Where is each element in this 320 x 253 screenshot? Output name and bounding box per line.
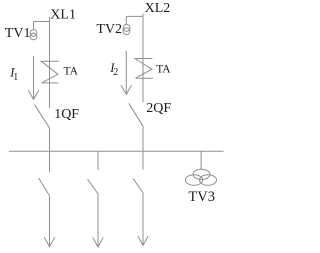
svg-text:TV3: TV3 — [188, 189, 215, 205]
wire: outgoing feeder 1 with arrow — [44, 195, 55, 246]
current arrow I1 — [28, 56, 39, 99]
wire: outgoing feeder 3 with arrow — [138, 193, 149, 245]
wire: TV3 tap stub — [200, 151, 202, 169]
label TV2 — [96, 22, 122, 37]
svg-text:TV1: TV1 — [5, 26, 31, 41]
svg-text:2: 2 — [113, 67, 118, 78]
wire: feeder 1 lower section through busbar — [49, 129, 51, 172]
svg-text:1: 1 — [13, 72, 18, 83]
label I1 — [9, 66, 18, 84]
current arrow I2 — [121, 51, 132, 95]
circuit breaker 1QF blade — [35, 105, 50, 129]
label TV1 — [5, 26, 31, 41]
svg-text:XL2: XL2 — [145, 1, 171, 16]
voltage transformer TV1 — [30, 30, 37, 40]
current transformer TA (feeder 1) — [41, 61, 59, 83]
label XL2 — [145, 1, 171, 16]
wire: incoming feeder line 1 (XL1) upper section — [49, 17, 51, 108]
svg-text:TA: TA — [156, 63, 171, 75]
wire: outgoing feeder 2 with arrow — [93, 194, 103, 247]
switch blade outgoing feeder 1 — [39, 178, 50, 195]
svg-text:2QF: 2QF — [146, 101, 171, 116]
switch blade outgoing feeder 2 — [88, 179, 99, 194]
label 1QF — [54, 107, 79, 122]
svg-text:TV2: TV2 — [96, 22, 122, 37]
wire: TV1 tap stub — [34, 22, 50, 30]
wire: outgoing feeder 2 stub — [97, 151, 99, 170]
label 2QF — [146, 101, 171, 116]
label I2 — [109, 61, 118, 78]
label TV3 — [188, 189, 215, 205]
busbar — [9, 150, 224, 152]
label TA feeder 2 — [156, 63, 171, 75]
circuit breaker 2QF blade — [129, 103, 144, 126]
label XL1 — [50, 7, 76, 22]
svg-text:1QF: 1QF — [54, 107, 79, 122]
wire: incoming feeder line 2 (XL2) upper section — [142, 14, 144, 103]
wire: feeder 2 lower section through busbar — [142, 127, 144, 170]
wire: TV2 tap stub — [126, 16, 143, 24]
svg-text:XL1: XL1 — [50, 7, 76, 22]
svg-text:TA: TA — [64, 66, 79, 78]
label TA feeder 1 — [64, 66, 79, 78]
voltage transformer TV2 — [123, 25, 130, 35]
switch blade outgoing feeder 3 — [133, 178, 143, 193]
transformer TV3 (three windings) — [185, 169, 216, 185]
current transformer TA (feeder 2) — [135, 59, 153, 79]
